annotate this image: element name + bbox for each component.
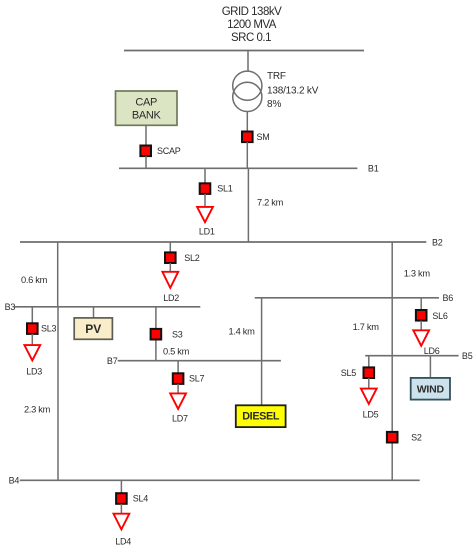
wire CAP BANK to SCAP — [145, 125, 147, 145]
svg-text:SL2: SL2 — [184, 253, 200, 263]
wire 1.4 km B6 to DIESEL crossing B7 — [229, 298, 262, 406]
switch SCAP — [140, 146, 180, 157]
svg-text:LD4: LD4 — [115, 536, 131, 546]
wire feeder 0.6 km B2 to B3 — [21, 242, 58, 307]
svg-text:PV: PV — [85, 322, 101, 336]
wire S3 line B3 to B7 with 0.5 km — [156, 307, 190, 361]
svg-text:1200 MVA: 1200 MVA — [227, 19, 277, 31]
svg-text:S3: S3 — [172, 329, 183, 339]
load LD7 — [170, 393, 188, 423]
load LD6 — [413, 330, 440, 356]
load LD1 — [197, 207, 215, 237]
load LD5 — [361, 389, 379, 420]
switch SL3 — [27, 323, 57, 334]
svg-text:LD7: LD7 — [172, 413, 188, 423]
PV box — [74, 318, 112, 339]
svg-text:TRF: TRF — [267, 71, 286, 82]
switch SL7 — [173, 373, 205, 384]
WIND box — [411, 378, 450, 400]
svg-text:SL6: SL6 — [432, 311, 448, 321]
svg-text:B5: B5 — [462, 351, 473, 361]
load LD2 — [162, 272, 179, 303]
wire SL1 to LD1 — [204, 194, 206, 208]
wire B3 to SL3 — [31, 307, 33, 324]
svg-text:WIND: WIND — [417, 383, 445, 395]
wire SL7 to LD7 — [177, 384, 179, 393]
wire SCAP to B1 — [145, 156, 147, 168]
wire SL2 to LD2 — [169, 263, 171, 272]
switch SL2 — [165, 252, 200, 263]
transformer TRF — [233, 71, 262, 111]
wire SL6 to LD6 — [420, 321, 422, 331]
switch SM — [242, 132, 270, 143]
svg-text:B1: B1 — [368, 164, 379, 174]
grid source label — [222, 6, 282, 44]
bus B3 — [14, 306, 200, 308]
wire grid to transformer — [247, 51, 249, 72]
svg-text:LD3: LD3 — [26, 367, 42, 377]
svg-text:SL4: SL4 — [133, 494, 149, 504]
bus B1 — [119, 167, 357, 169]
switch SL6 — [416, 310, 448, 321]
svg-text:S2: S2 — [411, 433, 422, 443]
svg-text:DIESEL: DIESEL — [242, 410, 280, 422]
wire transformer to SM — [246, 112, 248, 132]
svg-text:SRC 0.1: SRC 0.1 — [231, 32, 271, 44]
svg-text:1.3 km: 1.3 km — [404, 268, 431, 278]
CAP BANK box — [116, 91, 178, 125]
svg-text:1.4 km: 1.4 km — [229, 327, 256, 337]
wire B5 to SL5 — [368, 356, 370, 368]
svg-text:SCAP: SCAP — [157, 146, 181, 156]
svg-text:0.5 km: 0.5 km — [163, 347, 190, 357]
svg-text:B7: B7 — [107, 356, 118, 366]
switch SL1 — [200, 183, 233, 194]
svg-text:8%: 8% — [267, 99, 282, 110]
transformer labels — [267, 71, 319, 110]
svg-text:138/13.2 kV: 138/13.2 kV — [267, 86, 319, 97]
svg-text:1.7 km: 1.7 km — [353, 322, 380, 332]
bus B2 — [20, 241, 426, 243]
wire B7 to SL7 — [177, 361, 179, 374]
wire feeder 2.3 km B3 to B4 — [24, 307, 58, 481]
bus B6 — [255, 297, 439, 299]
svg-text:B6: B6 — [443, 293, 454, 303]
switch SL5 — [341, 367, 374, 378]
wire B5 to WIND — [429, 356, 431, 378]
wire B3 to PV — [93, 307, 95, 318]
svg-text:B4: B4 — [9, 476, 20, 486]
wire B2 to SL2 — [169, 242, 171, 252]
svg-text:LD6: LD6 — [424, 346, 440, 356]
svg-text:SL7: SL7 — [189, 374, 205, 384]
load LD3 — [24, 345, 42, 376]
svg-text:BANK: BANK — [132, 109, 162, 121]
svg-text:SL1: SL1 — [217, 184, 233, 194]
wire B6 to SL6 — [420, 298, 422, 310]
svg-text:B3: B3 — [5, 302, 16, 312]
svg-text:GRID 138kV: GRID 138kV — [222, 6, 282, 18]
grid bus — [124, 50, 364, 52]
svg-text:LD5: LD5 — [363, 409, 379, 419]
load LD4 — [114, 514, 132, 547]
svg-text:SM: SM — [257, 132, 270, 142]
wire SL4 to LD4 — [120, 504, 122, 514]
svg-text:B2: B2 — [432, 237, 443, 247]
svg-text:SL3: SL3 — [41, 324, 57, 334]
wire feeder 7.2 km B1 to B2 — [248, 168, 283, 242]
svg-text:LD1: LD1 — [199, 227, 215, 237]
switch S2 — [387, 432, 422, 443]
svg-text:2.3 km: 2.3 km — [24, 405, 51, 415]
wire B4 to SL4 — [120, 480, 122, 493]
svg-text:CAP: CAP — [135, 97, 157, 109]
bus B5 — [365, 355, 458, 357]
svg-text:LD2: LD2 — [163, 293, 179, 303]
svg-text:SL5: SL5 — [341, 368, 357, 378]
switch S3 — [151, 329, 183, 340]
switch SL4 — [116, 493, 148, 504]
wire SM to B1 — [246, 142, 248, 168]
wire feeder 1.3 km / 1.7 km / S2 line B2 to B4 — [353, 242, 431, 480]
svg-text:7.2 km: 7.2 km — [257, 198, 284, 208]
wire B1 to SL1 — [204, 168, 206, 183]
DIESEL box — [236, 405, 286, 427]
bus B7 — [118, 360, 281, 362]
wire SL3 to LD3 — [31, 334, 33, 345]
wire SL5 to LD5 — [368, 378, 370, 389]
svg-text:0.6 km: 0.6 km — [21, 275, 48, 285]
bus B4 — [20, 479, 420, 481]
